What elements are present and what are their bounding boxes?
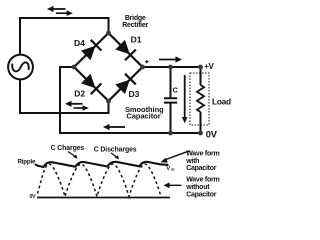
svg-text:D2: D2 bbox=[74, 89, 85, 99]
svg-text:Wave form: Wave form bbox=[186, 177, 219, 184]
capacitor C lead top bbox=[170, 67, 172, 97]
svg-text:Capacitor: Capacitor bbox=[126, 112, 160, 121]
wire resistor bottom to 0V rail bbox=[200, 112, 202, 133]
svg-text:Ripple: Ripple bbox=[18, 158, 36, 165]
bridge rectifier arms bbox=[74, 33, 143, 101]
label Wave form without Capacitor bbox=[185, 177, 219, 199]
svg-text:C Discharges: C Discharges bbox=[94, 146, 137, 153]
svg-text:D3: D3 bbox=[129, 89, 140, 99]
label + at right node bbox=[145, 60, 148, 63]
arrow wave form with capacitor bbox=[160, 151, 189, 163]
svg-text:Wave form: Wave form bbox=[186, 150, 219, 157]
node left bbox=[72, 65, 77, 70]
svg-text:V: V bbox=[166, 166, 170, 172]
svg-text:D1: D1 bbox=[131, 34, 142, 44]
diode D3 arm (bottom node to right node) bbox=[109, 67, 143, 101]
svg-text:+V: +V bbox=[204, 62, 214, 71]
waveform with capacitor (ripple line) bbox=[35, 162, 169, 167]
wire +V down to resistor top bbox=[200, 67, 202, 85]
svg-text:dc: dc bbox=[171, 168, 175, 172]
svg-text:0V: 0V bbox=[206, 129, 218, 139]
svg-text:C Charges: C Charges bbox=[51, 145, 85, 152]
arrow wave form without capacitor bbox=[164, 182, 182, 188]
svg-text:Capacitor: Capacitor bbox=[186, 165, 217, 172]
diode D4 arm (left node to top node) bbox=[74, 33, 109, 67]
AC double arrow bottom-left: right arrow bbox=[74, 105, 89, 111]
svg-text:Load: Load bbox=[212, 97, 231, 107]
svg-text:Rectifier: Rectifier bbox=[122, 22, 148, 29]
arrow C Charges bbox=[68, 152, 77, 159]
arrow C Discharges bbox=[111, 153, 119, 160]
arrow current down through load bbox=[182, 75, 188, 123]
AC source V1 bbox=[8, 55, 33, 80]
load dotted box bbox=[190, 73, 209, 125]
wire bridge left node to 0V rail bbox=[60, 67, 201, 133]
resistor R-load zigzag bbox=[197, 85, 204, 112]
node capacitor top junction bbox=[168, 65, 173, 70]
wire bridge right node to +V node bbox=[143, 66, 201, 68]
diode D4 symbol bbox=[80, 40, 101, 61]
svg-text:without: without bbox=[185, 184, 210, 191]
waveform 0V axis bbox=[37, 197, 170, 199]
label Smoothing Capacitor bbox=[125, 105, 164, 121]
AC double arrow top: left arrow bbox=[47, 6, 66, 12]
diode D2 symbol bbox=[80, 73, 101, 94]
diode D3 symbol bbox=[115, 74, 136, 95]
label Wave form with Capacitor bbox=[185, 150, 219, 172]
svg-text:Capacitor: Capacitor bbox=[186, 191, 217, 198]
wire AC bottom to bridge bottom node bbox=[20, 79, 109, 113]
waveform without capacitor (dashed humps) bbox=[38, 164, 162, 197]
wire AC top to bridge top node bbox=[20, 18, 109, 55]
node +V junction bbox=[198, 65, 203, 70]
label Bridge Rectifier bbox=[122, 15, 148, 29]
node 0V junction bbox=[198, 131, 203, 136]
svg-text:D4: D4 bbox=[74, 38, 85, 48]
AC double arrow top: right arrow bbox=[56, 10, 73, 16]
svg-text:with: with bbox=[185, 158, 199, 165]
diode D1 arm (top node to right node) bbox=[109, 33, 143, 67]
arrow current right to +V bbox=[159, 56, 182, 62]
svg-text:C: C bbox=[173, 85, 178, 94]
diode D2 arm (left node to bottom node) bbox=[74, 67, 109, 101]
diode D1 symbol bbox=[115, 39, 136, 60]
capacitor C lead bottom bbox=[170, 104, 172, 134]
capacitor C plates bbox=[164, 98, 177, 102]
AC sine symbol bbox=[12, 62, 29, 71]
AC double arrow bottom-left: left arrow bbox=[65, 101, 83, 107]
node top bbox=[106, 31, 111, 36]
svg-text:0V: 0V bbox=[30, 194, 37, 200]
node right bbox=[140, 65, 145, 70]
node bottom bbox=[106, 99, 111, 104]
arrow current left on 0V return bbox=[103, 124, 125, 130]
node capacitor bottom junction bbox=[168, 131, 173, 136]
